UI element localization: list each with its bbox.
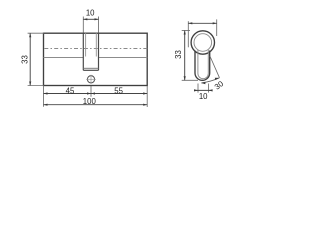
svg-text:10: 10 [199, 92, 208, 101]
arrow right-pointing tip (198,90.4) [194, 89, 198, 91]
cylinder body outline (side view) [44, 33, 148, 85]
dimension 33 profile extension lines [182, 31, 198, 81]
arrow left tip (43.5,104.5) [44, 104, 48, 106]
arrow left-pointing tip (208.6,90.4) [209, 89, 213, 91]
dimension 100 line [44, 104, 148, 106]
arrow down tip (184.7,80.3) [184, 76, 186, 80]
dimension 33 left line [29, 33, 31, 85]
centerline [44, 48, 147, 50]
screw hole center marks [86, 75, 96, 84]
svg-text:100: 100 [83, 97, 97, 106]
arrow up tip (30.2,33.2) [29, 33, 31, 37]
arrow right tip (91,93.5) [87, 92, 91, 94]
dimension 10 profile extension lines [198, 84, 209, 93]
dimension 45/55 line [44, 93, 148, 95]
svg-text:55: 55 [114, 87, 123, 96]
arrow down tip (30.2,85.5) [29, 82, 31, 86]
dimension 10 top line [83, 18, 98, 20]
arrow up tip (184.7,30.5) [184, 31, 186, 35]
arrow right tip (147.2,104.5) [143, 104, 147, 106]
top dimension line [188, 22, 216, 24]
arrow left tip (188.3,23.3) [188, 22, 192, 24]
arrow left tip (91,93.5) [91, 92, 95, 94]
top dimension extension lines [188, 19, 216, 47]
svg-text:45: 45 [66, 87, 75, 96]
dimension 33 left extension lines [28, 33, 44, 85]
dimension 33 profile line [184, 31, 186, 81]
arrow left tip (43.5,93.5) [44, 92, 48, 94]
profile outer housing circle [191, 31, 214, 54]
arrow right tip (147.2,93.5) [143, 92, 147, 94]
screw hole [87, 76, 94, 83]
profile inner plug circle [194, 34, 212, 52]
profile inner narrow part [198, 50, 208, 79]
bottom extension lines [44, 86, 148, 107]
arrow right tip (216.7,23.3) [213, 22, 217, 24]
profile outer narrow part [195, 51, 210, 81]
svg-text:30: 30 [213, 79, 226, 92]
arc arrow left tip (201.4,83) [201, 82, 205, 84]
angle dimension arc [201, 78, 219, 83]
dimension 10 top extension lines [83, 17, 98, 33]
svg-text:33: 33 [21, 55, 30, 64]
cam inner edges [83, 33, 98, 68]
dimension 10 profile line [194, 89, 212, 91]
cam slot [83, 33, 98, 70]
arrow left-pointing tip 83.3 [83, 18, 87, 20]
arrow right-pointing tip 98.5 [95, 18, 99, 20]
arc arrow right tip (219.3,77.9) [215, 78, 219, 80]
svg-text:10: 10 [86, 9, 95, 18]
svg-text:33: 33 [174, 50, 183, 59]
angle ray 30deg [210, 56, 220, 78]
tangent edge line [44, 57, 148, 59]
